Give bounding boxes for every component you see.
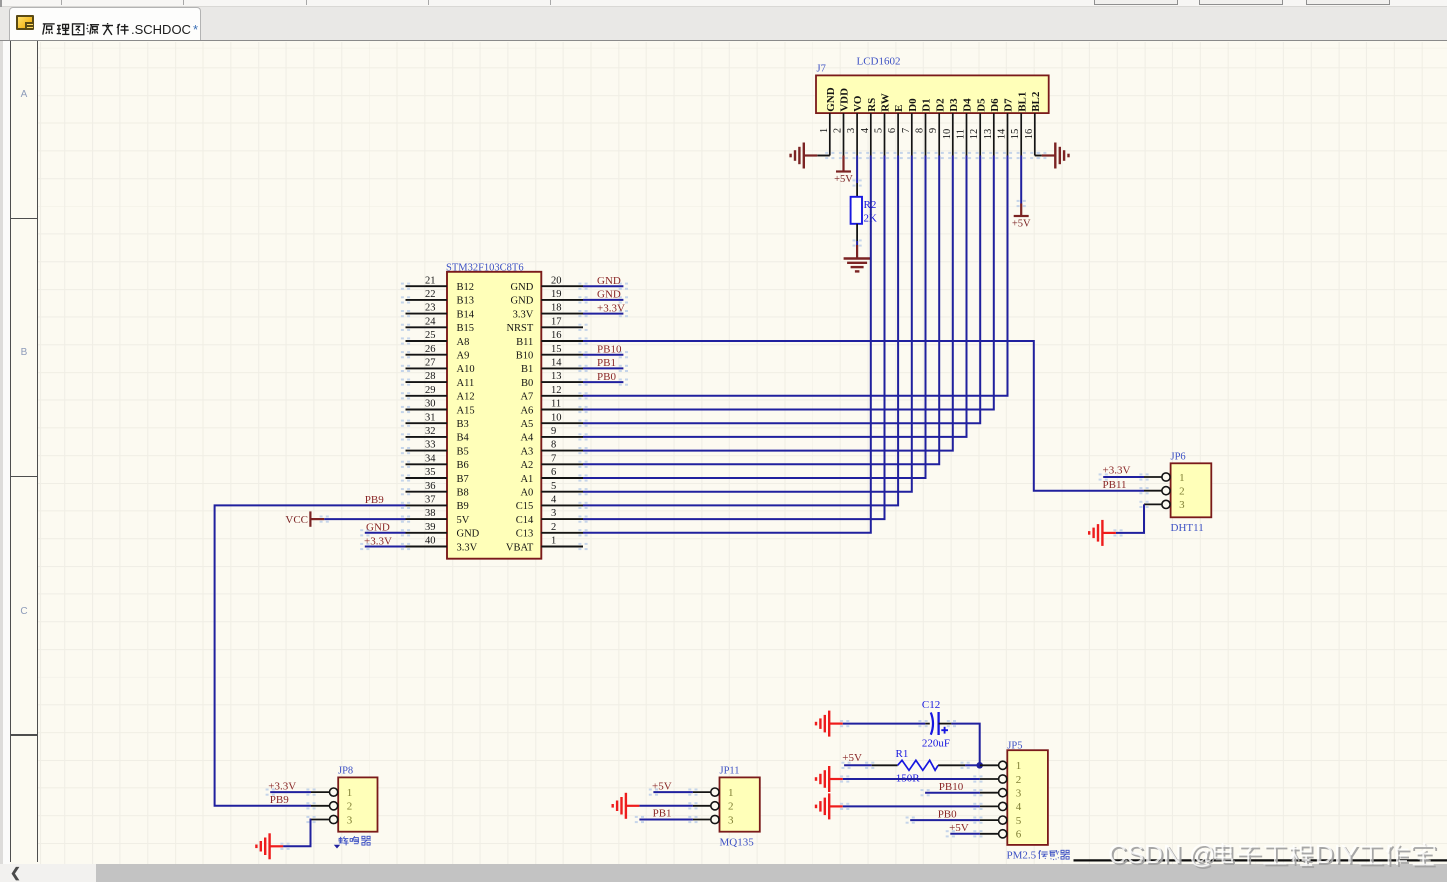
bottom scrollbar xyxy=(0,864,1447,882)
svg-text:C14: C14 xyxy=(516,515,534,526)
power port VCC xyxy=(310,511,324,526)
svg-text:A7: A7 xyxy=(520,392,533,403)
svg-text:E: E xyxy=(893,104,905,111)
svg-text:*: * xyxy=(193,22,198,37)
wire stub net GND at mcu right pin 20 xyxy=(583,285,623,287)
svg-text:20: 20 xyxy=(551,275,562,286)
wire net +3.3V to JP8 pin1 xyxy=(270,791,311,793)
svg-text:33: 33 xyxy=(425,440,436,451)
svg-text:J7: J7 xyxy=(817,64,826,75)
svg-text:GND: GND xyxy=(597,289,621,301)
svg-text:VO: VO xyxy=(852,95,864,112)
svg-text:35: 35 xyxy=(425,467,436,478)
svg-text:29: 29 xyxy=(425,385,436,396)
svg-text:13: 13 xyxy=(983,129,994,140)
svg-text:23: 23 xyxy=(425,303,436,314)
svg-text:25: 25 xyxy=(425,330,436,341)
svg-text:8: 8 xyxy=(915,128,926,133)
svg-text:D6: D6 xyxy=(989,98,1001,112)
svg-text:1: 1 xyxy=(819,128,830,133)
svg-text:3: 3 xyxy=(728,814,734,826)
svg-text:14: 14 xyxy=(551,358,562,369)
sheet ruler zone xyxy=(10,41,12,862)
svg-text:A5: A5 xyxy=(520,419,533,430)
connector JP8 body xyxy=(338,777,377,831)
connector JP8 comment buzzer xyxy=(339,837,349,846)
wire C12 to junction at JP5 pin1 xyxy=(951,724,979,766)
svg-text:4: 4 xyxy=(551,495,557,506)
svg-text:2: 2 xyxy=(728,801,734,813)
wire JP11 pin2 to ground xyxy=(639,805,693,807)
resistor R2 top lead xyxy=(856,183,858,197)
svg-text:4: 4 xyxy=(860,127,871,133)
svg-text:VBAT: VBAT xyxy=(506,542,534,553)
wire ground to C12 xyxy=(843,723,926,725)
wire stub net PB0 at mcu right pin 13 xyxy=(583,381,623,383)
svg-text:4: 4 xyxy=(1016,801,1022,813)
wire stub net +3.3V at mcu right pin 18 xyxy=(583,313,623,315)
svg-text:+3.3V: +3.3V xyxy=(1103,465,1131,477)
svg-text:JP8: JP8 xyxy=(338,766,353,777)
svg-text:A11: A11 xyxy=(457,378,475,389)
schematic sheet bottom border xyxy=(1074,859,1447,861)
mcu pin endpoint markers xyxy=(401,283,410,290)
svg-text:GND: GND xyxy=(511,282,534,293)
svg-text:B7: B7 xyxy=(457,474,469,485)
svg-text:BL2: BL2 xyxy=(1030,91,1042,112)
svg-text:C15: C15 xyxy=(516,501,534,512)
wire ground to JP5 pin4 xyxy=(843,805,980,807)
capacitor C12 straight plate xyxy=(937,712,939,735)
svg-text:.SCHDOC: .SCHDOC xyxy=(131,22,191,37)
svg-text:PB9: PB9 xyxy=(365,494,384,506)
svg-text:B1: B1 xyxy=(521,364,533,375)
svg-text:2: 2 xyxy=(1016,774,1022,786)
svg-text:8: 8 xyxy=(551,440,556,451)
resistor R1 zigzag xyxy=(898,760,939,770)
left margin strips xyxy=(0,41,3,865)
svg-text:D2: D2 xyxy=(934,98,946,112)
svg-text:D7: D7 xyxy=(1003,98,1015,112)
svg-text:PB1: PB1 xyxy=(597,357,616,369)
wire RS net: LCD pin4 to mcu xyxy=(583,156,871,533)
svg-text:A10: A10 xyxy=(457,364,475,375)
svg-text:C13: C13 xyxy=(516,529,534,540)
svg-text:3: 3 xyxy=(1179,499,1185,511)
svg-text:24: 24 xyxy=(425,316,436,327)
connector JP5 body xyxy=(1007,750,1048,845)
svg-text:PB9: PB9 xyxy=(270,794,289,806)
svg-text:5: 5 xyxy=(551,481,556,492)
svg-text:B12: B12 xyxy=(457,282,475,293)
wire D5 net: LCD pin12 to mcu xyxy=(583,156,980,424)
svg-text:27: 27 xyxy=(425,358,436,369)
wire J7 pin16 to ground xyxy=(1035,155,1042,157)
connector J7 pins 1-16 xyxy=(829,113,831,155)
wire stub net PB10 at mcu right pin 15 xyxy=(583,354,623,356)
svg-text:6: 6 xyxy=(551,467,556,478)
svg-text:D0: D0 xyxy=(907,98,919,112)
svg-text:3: 3 xyxy=(846,128,857,133)
wire E net: LCD pin6 to mcu xyxy=(583,156,898,506)
wire RW net: LCD pin5 to mcu xyxy=(583,156,885,520)
svg-text:B11: B11 xyxy=(516,337,533,348)
connector JP6 pins xyxy=(1144,476,1162,478)
wire stub net PB1 at mcu right pin 14 xyxy=(583,367,623,369)
connector JP6 body xyxy=(1171,463,1212,517)
connector JP8 pins xyxy=(311,791,330,793)
svg-text:DHT11: DHT11 xyxy=(1171,522,1204,534)
connector J7 body xyxy=(816,75,1049,113)
resistor R2 xyxy=(851,197,862,224)
svg-text:A3: A3 xyxy=(520,446,533,457)
svg-text:PB0: PB0 xyxy=(597,371,616,383)
svg-text:16: 16 xyxy=(1024,129,1035,140)
svg-text:B10: B10 xyxy=(516,351,534,362)
power ground at JP11 xyxy=(613,793,640,819)
svg-text:1: 1 xyxy=(551,536,556,547)
svg-text:D1: D1 xyxy=(921,98,933,111)
svg-text:+5V: +5V xyxy=(652,780,672,792)
resistor R1 right lead xyxy=(938,764,965,766)
svg-text:15: 15 xyxy=(1010,129,1021,139)
wire stub net +3.3V mcu pin40 xyxy=(365,546,406,548)
svg-text:26: 26 xyxy=(425,344,436,355)
svg-text:13: 13 xyxy=(551,371,562,382)
svg-text:2: 2 xyxy=(833,128,844,133)
svg-text:+3.3V: +3.3V xyxy=(268,780,296,792)
connector JP5 pins xyxy=(980,764,999,766)
svg-text:CSDN @: CSDN @ xyxy=(1108,839,1215,869)
svg-text:D5: D5 xyxy=(975,98,987,112)
svg-text:PB10: PB10 xyxy=(597,344,622,356)
svg-text:PB10: PB10 xyxy=(939,781,964,793)
svg-text:JP11: JP11 xyxy=(720,766,740,777)
wire net PB11 mcu pin16 to JP6 pin2 xyxy=(583,341,1144,491)
wire J7 pin3 to R2 xyxy=(856,156,858,184)
svg-text:+5V: +5V xyxy=(834,174,853,185)
svg-text:39: 39 xyxy=(425,522,436,533)
svg-text:5: 5 xyxy=(1016,815,1022,827)
svg-text:R1: R1 xyxy=(896,748,909,760)
svg-text:3.3V: 3.3V xyxy=(457,542,478,553)
svg-text:3: 3 xyxy=(1016,788,1022,800)
svg-text:11: 11 xyxy=(956,129,967,139)
junction at JP5 pin1 xyxy=(976,762,983,769)
svg-text:16: 16 xyxy=(551,330,562,341)
wire J7 pin1 to ground xyxy=(817,155,830,157)
power ground at C12 xyxy=(816,711,843,737)
power ground at JP8 xyxy=(256,833,283,859)
connector JP11 body xyxy=(720,777,760,831)
svg-text:NRST: NRST xyxy=(506,323,533,334)
wire D3 net: LCD pin10 to mcu xyxy=(583,156,953,451)
svg-text:B15: B15 xyxy=(457,323,475,334)
svg-text:A2: A2 xyxy=(520,460,533,471)
svg-text:6: 6 xyxy=(887,128,898,133)
svg-text:VDD: VDD xyxy=(839,88,851,112)
svg-text:18: 18 xyxy=(551,303,562,314)
svg-text:PB0: PB0 xyxy=(938,808,957,820)
power ground GND left of J7 xyxy=(791,143,818,169)
wire D0 net: LCD pin7 to mcu xyxy=(583,156,912,492)
svg-text:RS: RS xyxy=(866,98,878,112)
wire net +5V to JP11 pin1 xyxy=(653,791,693,793)
wire JP8 pin3 to ground xyxy=(283,820,311,847)
tab bar xyxy=(0,8,1447,40)
svg-text:5V: 5V xyxy=(457,515,470,526)
svg-text:32: 32 xyxy=(425,426,436,437)
svg-text:31: 31 xyxy=(425,412,436,423)
capacitor C12 left lead xyxy=(925,723,930,725)
svg-text:5: 5 xyxy=(874,128,885,133)
svg-text:3: 3 xyxy=(347,814,353,826)
svg-text:PB11: PB11 xyxy=(1103,479,1127,491)
pin endpoint markers J7 xyxy=(825,152,834,159)
wire net PB10 to JP5 pin3 xyxy=(925,792,980,794)
wire net +5V to JP5 pin6 xyxy=(950,833,980,835)
wire JP6 pin3 to ground xyxy=(1116,504,1144,533)
svg-text:B8: B8 xyxy=(457,488,469,499)
wire net +3.3V to JP6 pin1 xyxy=(1103,476,1144,478)
wire net PB1 to JP11 pin3 xyxy=(639,819,693,821)
svg-text:DIY: DIY xyxy=(1315,839,1358,869)
power ground GND right of J7 xyxy=(1042,143,1069,169)
svg-text:GND: GND xyxy=(597,275,621,287)
capacitor C12 curved plate xyxy=(931,713,933,735)
svg-text:9: 9 xyxy=(551,426,556,437)
svg-text:LCD1602: LCD1602 xyxy=(857,56,901,68)
svg-text:22: 22 xyxy=(425,289,436,300)
svg-text:7: 7 xyxy=(551,453,556,464)
document tab xyxy=(9,7,201,40)
resistor R2 bottom lead xyxy=(856,224,858,241)
wire stub net GND at mcu right pin 19 xyxy=(583,299,623,301)
svg-text:3: 3 xyxy=(551,508,556,519)
power port +5V at J7 pin2 xyxy=(836,156,851,172)
top toolbar remnant strip xyxy=(0,0,1447,7)
svg-text:12: 12 xyxy=(969,129,980,140)
CSDN watermark xyxy=(0,835,1447,882)
wire R2 to ground xyxy=(856,241,858,245)
svg-text:21: 21 xyxy=(425,275,436,286)
mcu U1 left pins 21-40 xyxy=(406,285,448,287)
connector JP11 pins xyxy=(693,791,711,793)
svg-text:A9: A9 xyxy=(457,351,470,362)
svg-text:15: 15 xyxy=(551,344,562,355)
svg-text:36: 36 xyxy=(425,481,436,492)
power port +5V below J7 pin15 xyxy=(1014,204,1029,217)
svg-text:RW: RW xyxy=(880,93,892,112)
svg-text:+5V: +5V xyxy=(842,752,862,764)
svg-text:JP6: JP6 xyxy=(1171,452,1186,463)
svg-text:1: 1 xyxy=(347,787,353,799)
svg-text:A6: A6 xyxy=(520,405,533,416)
svg-text:34: 34 xyxy=(425,453,436,464)
svg-text:B14: B14 xyxy=(457,309,475,320)
capacitor C12 right lead xyxy=(939,723,952,725)
wire mcu pin38 5V to VCC xyxy=(324,518,405,520)
svg-text:2: 2 xyxy=(347,801,353,813)
svg-text:BL1: BL1 xyxy=(1016,92,1028,112)
wire D6 net: LCD pin13 to mcu xyxy=(583,156,994,410)
mcu U1 right pins 20-1 xyxy=(541,285,583,287)
wire net PB0 to JP5 pin5 xyxy=(910,819,980,821)
svg-text:GND: GND xyxy=(457,529,480,540)
svg-text:GND: GND xyxy=(366,522,390,534)
svg-text:19: 19 xyxy=(551,289,562,300)
svg-text:B5: B5 xyxy=(457,446,469,457)
svg-text:+3.3V: +3.3V xyxy=(597,302,625,314)
mcu U1 body xyxy=(447,272,541,559)
svg-text:C12: C12 xyxy=(922,699,940,711)
svg-text:B3: B3 xyxy=(457,419,469,430)
power ground at JP6 xyxy=(1089,520,1116,546)
svg-text:GND: GND xyxy=(825,87,837,112)
power ground at JP5 pin2 xyxy=(816,766,843,792)
power ground below R2 xyxy=(844,245,871,271)
svg-text:PB1: PB1 xyxy=(653,808,672,820)
svg-text:3.3V: 3.3V xyxy=(513,309,534,320)
svg-text:37: 37 xyxy=(425,495,436,506)
svg-text:A4: A4 xyxy=(520,433,534,444)
svg-text:30: 30 xyxy=(425,399,436,410)
svg-text:A12: A12 xyxy=(457,392,475,403)
svg-text:GND: GND xyxy=(511,296,534,307)
wire D2 net: LCD pin9 to mcu xyxy=(583,156,939,465)
svg-text:B0: B0 xyxy=(521,378,533,389)
svg-text:1: 1 xyxy=(1016,760,1022,772)
svg-text:2: 2 xyxy=(551,522,556,533)
svg-text:9: 9 xyxy=(928,128,939,133)
wire D4 net: LCD pin11 to mcu xyxy=(583,156,967,437)
capacitor C12 plus sign xyxy=(941,727,948,734)
wire R1 to junction xyxy=(965,764,980,766)
svg-text:D4: D4 xyxy=(962,98,974,112)
wire +5V to R1 xyxy=(844,764,872,766)
wire net PB9 mcu pin37 to JP8 pin2 xyxy=(215,505,406,805)
svg-text:12: 12 xyxy=(551,385,562,396)
svg-text:1: 1 xyxy=(1179,472,1185,484)
power ground at JP5 pin4 xyxy=(816,793,843,819)
wire ground to JP5 pin2 xyxy=(843,778,980,780)
svg-text:7: 7 xyxy=(901,128,912,133)
svg-text:D3: D3 xyxy=(948,98,960,112)
svg-text:A15: A15 xyxy=(457,405,475,416)
svg-text:B9: B9 xyxy=(457,501,469,512)
svg-text:+3.3V: +3.3V xyxy=(364,535,392,547)
svg-text:+5V: +5V xyxy=(949,822,969,834)
svg-text:VCC: VCC xyxy=(285,514,308,526)
resistor R1 left lead xyxy=(872,764,898,766)
svg-text:B6: B6 xyxy=(457,460,469,471)
svg-text:A8: A8 xyxy=(457,337,470,348)
svg-text:220uF: 220uF xyxy=(922,737,950,749)
svg-text:10: 10 xyxy=(942,129,953,140)
svg-text:1: 1 xyxy=(728,787,734,799)
wire stub net GND mcu pin39 xyxy=(365,532,406,534)
svg-text:28: 28 xyxy=(425,371,436,382)
svg-text:38: 38 xyxy=(425,508,436,519)
svg-text:17: 17 xyxy=(551,316,562,327)
svg-text:B13: B13 xyxy=(457,296,475,307)
svg-text:2: 2 xyxy=(1179,486,1185,498)
svg-text:A1: A1 xyxy=(520,474,533,485)
svg-text:14: 14 xyxy=(997,128,1008,139)
wire J7 pin15 BL1 to +5V xyxy=(1020,156,1022,204)
wire D7 net: LCD pin14 to mcu xyxy=(583,156,1008,396)
wire D1 net: LCD pin8 to mcu xyxy=(583,156,926,479)
svg-text:10: 10 xyxy=(551,412,562,423)
svg-text:B4: B4 xyxy=(457,433,470,444)
svg-text:11: 11 xyxy=(551,399,561,410)
svg-text:40: 40 xyxy=(425,536,436,547)
svg-text:A0: A0 xyxy=(520,488,533,499)
svg-text:+5V: +5V xyxy=(1012,219,1031,230)
